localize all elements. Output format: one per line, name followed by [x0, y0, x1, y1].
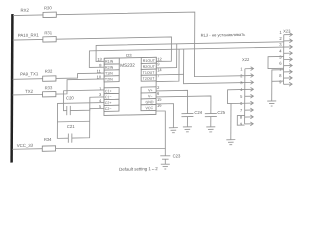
wire C20 to C1- pin3 [70, 97, 104, 111]
svg-text:R31: R31 [44, 30, 52, 35]
resistor R34 [42, 146, 55, 151]
wire TX1 from bus to R32 [13, 78, 43, 81]
ground below C24 [183, 127, 192, 132]
svg-text:6: 6 [279, 61, 282, 66]
resistor R31 [43, 37, 56, 42]
svg-text:RX2: RX2 [21, 8, 30, 13]
svg-text:R34: R34 [44, 137, 52, 142]
svg-text:R1IN: R1IN [105, 60, 114, 64]
svg-text:7: 7 [240, 108, 243, 113]
wire C1+ pin1 loop to C20 [63, 90, 104, 111]
X22 spine [244, 69, 246, 124]
svg-text:C25: C25 [217, 110, 225, 115]
wire TX2 net: R33 to T2IN pin 10 [56, 79, 104, 94]
svg-text:C24: C24 [194, 110, 202, 115]
capacitor C23 [160, 156, 170, 164]
svg-text:R2IN: R2IN [105, 66, 114, 70]
svg-text:R30: R30 [44, 5, 52, 10]
X22 pins 1-9 arrows [245, 67, 254, 126]
X23 pins 1-9 arrows [283, 33, 292, 87]
wire X22 jumper to ground [230, 104, 232, 140]
svg-text:T2IN: T2IN [105, 77, 113, 81]
IC D3 (MAX232-type) body [104, 57, 156, 115]
svg-text:R1OUT: R1OUT [143, 59, 156, 63]
wire C21 to C2- pin5 [72, 108, 104, 138]
svg-text:5: 5 [279, 55, 282, 60]
resistor R32 [43, 76, 56, 81]
svg-text:C20: C20 [66, 95, 74, 100]
svg-text:T2OUT: T2OUT [143, 77, 156, 81]
svg-text:R2OUT: R2OUT [143, 65, 156, 69]
svg-text:C2−: C2− [105, 107, 112, 111]
svg-text:16: 16 [157, 103, 162, 108]
wire R2OUT pin 9 stub with vertical up to R1IN loop line [156, 44, 177, 68]
wire VCC junction down to C23 [164, 148, 166, 156]
svg-text:C1−: C1− [105, 95, 112, 99]
capacitor C21 [68, 133, 72, 142]
X22 jumper pins 5-6 [228, 89, 245, 103]
svg-text:1: 1 [240, 66, 243, 71]
svg-text:9: 9 [240, 121, 243, 126]
svg-text:C2+: C2+ [105, 101, 112, 105]
IC pin numbers left: 13 8 11 10 1 3 4 5 [96, 57, 102, 109]
IC pin names right [142, 59, 155, 111]
X23 jumper pins 7-8 [272, 70, 284, 82]
IC pin names left [105, 60, 114, 111]
wire T2OUT pin 7 stub with vertical up to R2IN loop line [156, 49, 179, 81]
connector X22 [240, 57, 254, 127]
wire RX2 net: R30 to vertical, down, to X22 pin2 [56, 11, 245, 79]
capacitor C20 [67, 106, 71, 115]
svg-text:VCC: VCC [145, 106, 153, 110]
svg-text:C1+: C1+ [105, 89, 112, 93]
bus line (thick left bus) [10, 14, 13, 163]
wire C2+ pin4 loop to C21 [57, 103, 104, 139]
svg-text:3: 3 [279, 42, 282, 47]
wire RX1 from bus to R31 [13, 38, 43, 41]
resistor R30 [43, 12, 56, 17]
wire R1IN loop: pin 13 up over IC, right to X23 pin 2 [96, 42, 284, 62]
svg-text:C21: C21 [67, 124, 75, 129]
svg-text:1: 1 [279, 30, 282, 35]
svg-text:2: 2 [279, 36, 282, 41]
svg-text:Default setting 1↔2: Default setting 1↔2 [119, 166, 158, 172]
wire VCC net: R34 to junction, up to VCC pin 16 [56, 111, 166, 149]
ground below X23 [267, 101, 276, 106]
ground at pin15 [169, 128, 178, 133]
X23 pin numbers [279, 30, 282, 85]
svg-text:5: 5 [240, 94, 243, 99]
wire RX2 from bus to R30 [13, 14, 43, 17]
svg-text:4: 4 [279, 48, 282, 53]
wire V+ to C24 [156, 90, 188, 114]
capacitor C24 [181, 113, 193, 126]
svg-text:V−: V− [148, 94, 153, 98]
svg-text:3: 3 [99, 92, 102, 97]
svg-text:PA10_RX1: PA10_RX1 [18, 32, 40, 37]
wire TX2 from bus to R33 [13, 93, 43, 96]
wire TX1 net: R32 to T1IN pin 11 [56, 73, 104, 78]
svg-text:9: 9 [279, 79, 282, 84]
wire T1OUT pin 14 stub to vertical at x183.9 [156, 73, 183, 76]
svg-text:8: 8 [279, 73, 282, 78]
svg-text:2: 2 [157, 85, 160, 90]
svg-text:MS232: MS232 [120, 63, 135, 68]
IC left pin column boxes [104, 58, 119, 111]
svg-text:R33: R33 [45, 85, 53, 90]
svg-text:V+: V+ [148, 88, 153, 92]
svg-text:T1OUT: T1OUT [143, 71, 156, 75]
svg-text:6: 6 [157, 91, 160, 96]
wire GND pin15 to ground [156, 104, 174, 128]
wire top edge of C21 box [57, 120, 89, 123]
wire V- to C25 [156, 96, 211, 115]
X22 pin numbers [240, 66, 243, 126]
wire X23 jumper to ground [271, 81, 273, 101]
capacitor C25 [205, 113, 217, 127]
ground below C25 [206, 127, 215, 132]
wire vertical x183.9 from loop line down, right to X22 pin 3 [184, 48, 245, 84]
svg-text:RL3 - не устанавливать: RL3 - не устанавливать [201, 32, 246, 38]
wire RX1 net: R31 right, down at x171.6 to R1OUT pin 12 stub [56, 37, 171, 63]
svg-text:GND: GND [146, 100, 154, 104]
svg-text:PA9_TX1: PA9_TX1 [20, 71, 39, 76]
IC pin numbers right: 12 9 14 7 2 6 15 16 [157, 56, 163, 107]
svg-text:D3: D3 [126, 53, 132, 58]
svg-text:VCC_33: VCC_33 [17, 143, 34, 148]
svg-text:X22: X22 [242, 57, 250, 62]
wire VCC_33 from bus to R34 [12, 148, 42, 151]
IC right pin column boxes [141, 57, 156, 110]
wire R2IN loop: pin 8 up over IC, right to X23 pin 3 [89, 47, 283, 67]
svg-text:15: 15 [157, 97, 162, 102]
X22 jumper pins 8-9 [237, 115, 244, 125]
svg-text:T1IN: T1IN [105, 71, 113, 75]
X23 spine [283, 35, 285, 85]
svg-text:9: 9 [157, 61, 160, 66]
ground below X22 [226, 140, 235, 145]
ground below C23 [161, 164, 170, 169]
svg-text:7: 7 [157, 73, 160, 78]
svg-text:C23: C23 [173, 154, 181, 159]
svg-text:TX2: TX2 [25, 89, 34, 94]
connector X23 [279, 28, 292, 86]
svg-text:R32: R32 [45, 69, 53, 74]
X23 jumper pins 5-6 [268, 56, 284, 68]
resistor R33 [43, 92, 56, 97]
